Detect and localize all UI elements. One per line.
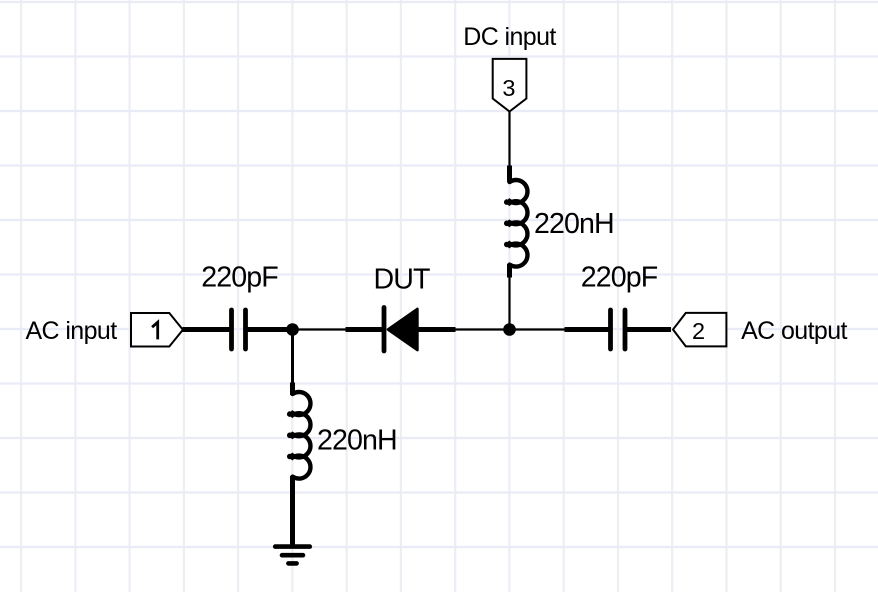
port 1 symbol bbox=[131, 313, 183, 347]
node B junction dot bbox=[503, 323, 516, 336]
capacitor C1 right plate bbox=[243, 310, 248, 349]
diode DUT triangle bbox=[388, 309, 417, 350]
port 3 symbol bbox=[493, 59, 527, 112]
wire: node A to diode left lead bbox=[293, 328, 347, 330]
ground bar 1 bbox=[275, 544, 310, 549]
wire: C2 left lead bbox=[565, 327, 611, 332]
svg-text:DUT: DUT bbox=[373, 264, 429, 296]
svg-text:2: 2 bbox=[692, 318, 705, 344]
capacitor C2 right plate bbox=[623, 310, 628, 349]
wire: L2 to ground bbox=[290, 476, 295, 546]
svg-text:AC input: AC input bbox=[25, 317, 117, 345]
port 2 symbol bbox=[673, 313, 726, 347]
wire: port3 down to L1 bbox=[508, 111, 510, 167]
wire: diode left lead bbox=[346, 327, 383, 332]
wire: port1 lead to C1 bbox=[183, 327, 232, 332]
wire: node A down to L2 bbox=[291, 330, 294, 384]
diode DUT cathode bar bbox=[382, 308, 387, 352]
wire: node B to C2 bbox=[510, 328, 566, 330]
svg-text:AC output: AC output bbox=[741, 317, 847, 345]
capacitor C2 left plate bbox=[608, 310, 613, 349]
wire: L2 top stub bbox=[290, 383, 295, 396]
svg-text:DC input: DC input bbox=[463, 23, 556, 51]
inductor L2 coil 220nH bbox=[289, 392, 310, 479]
wire: diode to node B bbox=[456, 328, 510, 330]
port 1 pin number 1 bbox=[152, 322, 158, 339]
wire: C2 right lead to port2 bbox=[626, 327, 672, 332]
ground bar 2 bbox=[282, 553, 303, 558]
svg-text:220nH: 220nH bbox=[534, 208, 614, 240]
inductor L1 coil 220nH bbox=[506, 180, 527, 267]
wire: diode right lead bbox=[419, 327, 456, 332]
ground bar 3 bbox=[288, 561, 296, 566]
wire: L1 to node B bbox=[508, 277, 510, 330]
svg-text:220nH: 220nH bbox=[317, 425, 397, 457]
svg-text:220pF: 220pF bbox=[581, 262, 658, 294]
svg-text:3: 3 bbox=[502, 75, 515, 101]
wire: L1 bottom stub bbox=[507, 264, 512, 278]
capacitor C1 left plate bbox=[229, 310, 234, 349]
svg-text:220pF: 220pF bbox=[201, 262, 278, 294]
node A junction dot bbox=[286, 323, 299, 336]
wire: L1 top stub bbox=[507, 166, 512, 183]
wire: C1 right lead to node A bbox=[246, 327, 288, 332]
